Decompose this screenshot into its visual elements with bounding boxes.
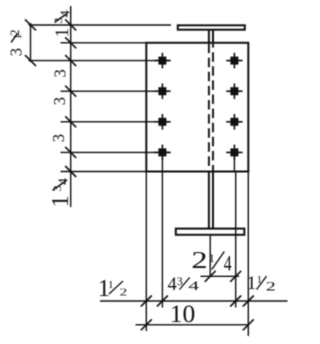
svg-text:4: 4 xyxy=(58,10,73,17)
svg-text:2: 2 xyxy=(8,30,22,36)
svg-text:3: 3 xyxy=(49,134,68,142)
svg-text:1: 1 xyxy=(209,251,215,265)
svg-text:1: 1 xyxy=(53,28,73,37)
svg-text:10: 10 xyxy=(170,299,196,328)
svg-text:1: 1 xyxy=(48,195,74,207)
svg-text:3: 3 xyxy=(6,48,25,56)
svg-text:2: 2 xyxy=(120,286,128,298)
svg-text:3: 3 xyxy=(50,69,69,77)
svg-text:2: 2 xyxy=(191,247,207,274)
svg-text:4: 4 xyxy=(56,178,71,185)
svg-text:4: 4 xyxy=(224,252,232,276)
svg-text:4: 4 xyxy=(188,279,199,293)
svg-text:3: 3 xyxy=(50,97,69,105)
svg-text:4: 4 xyxy=(168,275,177,295)
svg-text:1: 1 xyxy=(108,279,114,291)
svg-text:2: 2 xyxy=(266,279,276,293)
svg-text:1: 1 xyxy=(247,273,257,294)
